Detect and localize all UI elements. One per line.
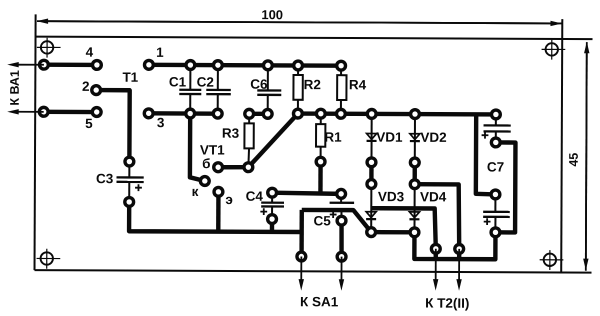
svg-text:R1: R1 [324, 130, 342, 145]
svg-text:К ВА1: К ВА1 [8, 70, 22, 106]
svg-text:э: э [225, 192, 233, 207]
svg-text:К SA1: К SA1 [300, 294, 339, 309]
svg-text:С7: С7 [487, 160, 504, 175]
svg-text:R3: R3 [222, 126, 240, 141]
svg-text:1: 1 [156, 45, 164, 60]
svg-text:5: 5 [85, 116, 93, 131]
svg-text:б: б [202, 156, 210, 171]
svg-text:VD1: VD1 [376, 130, 403, 145]
svg-text:45: 45 [567, 153, 581, 167]
svg-text:к: к [192, 184, 199, 199]
svg-text:R2: R2 [304, 77, 321, 92]
svg-text:С5: С5 [313, 213, 331, 228]
svg-text:100: 100 [261, 7, 283, 22]
svg-text:С1: С1 [169, 74, 187, 89]
svg-text:R4: R4 [349, 77, 367, 92]
svg-text:С3: С3 [96, 171, 114, 186]
svg-text:VD3: VD3 [378, 189, 405, 204]
svg-text:VD2: VD2 [420, 130, 446, 145]
svg-text:С4: С4 [246, 189, 264, 204]
svg-text:К Т2(II): К Т2(II) [425, 296, 469, 311]
svg-text:3: 3 [157, 115, 165, 130]
svg-text:С2: С2 [197, 75, 214, 90]
svg-text:4: 4 [86, 45, 94, 60]
svg-text:2: 2 [82, 79, 90, 94]
svg-text:VD4: VD4 [420, 189, 447, 204]
svg-text:Т1: Т1 [122, 70, 138, 85]
svg-text:С6: С6 [250, 77, 268, 92]
